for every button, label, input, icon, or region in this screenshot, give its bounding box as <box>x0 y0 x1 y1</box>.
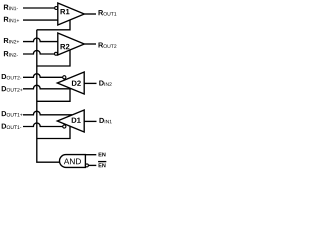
bubble AND inverted enable input <box>85 164 88 167</box>
label EN <box>99 153 106 157</box>
label DOUT1- <box>2 124 22 129</box>
wire RIN1- <box>23 7 55 9</box>
label ROUT1 <box>98 10 116 15</box>
bubble R2 inverting input <box>55 52 58 55</box>
wire DIN2 <box>84 82 96 84</box>
label ROUT2 <box>98 42 116 47</box>
overline of EN-bar label <box>98 161 106 163</box>
wire D2 enable tap <box>37 88 70 101</box>
label RIN2- <box>4 51 18 56</box>
wire ROUT2 <box>84 43 96 45</box>
bubble D2 inverting output <box>63 76 66 79</box>
wire RIN1+ <box>23 19 58 21</box>
wire R2 enable tap <box>37 50 70 66</box>
wire D1 enable tap <box>37 126 70 138</box>
label RIN1+ <box>4 17 19 22</box>
label DIN1 <box>99 118 111 123</box>
label RIN2+ <box>4 38 19 43</box>
label R1 <box>61 9 70 14</box>
wire DIN1 <box>84 120 96 122</box>
wire EN-bar input <box>88 164 96 166</box>
wire RIN2- with hop <box>23 50 55 54</box>
receiver R2 <box>58 33 85 55</box>
AND gate U1 <box>60 155 86 168</box>
label D2 <box>72 80 81 85</box>
label RIN1- <box>4 5 18 10</box>
wire DOUT2- with hop <box>23 74 63 78</box>
label DOUT2+ <box>2 86 23 91</box>
label D1 <box>72 118 81 123</box>
label DIN2 <box>99 80 111 85</box>
driver D1 <box>57 110 84 132</box>
label DOUT1+ <box>2 111 23 116</box>
wire ROUT1 <box>84 13 96 15</box>
label DOUT2- <box>2 74 22 79</box>
label EN-bar <box>99 163 106 167</box>
bubble R1 inverting input <box>55 7 58 10</box>
wire EN input <box>85 154 96 156</box>
wire enable bus <box>37 30 60 162</box>
wire DOUT2+ with hop <box>23 85 71 89</box>
wire DOUT1+ with hop <box>23 111 72 115</box>
bubble D1 inverting output <box>63 125 66 128</box>
wire RIN2+ with hop <box>23 38 58 42</box>
label R2 <box>61 44 70 49</box>
label AND <box>64 158 81 164</box>
receiver R1 <box>58 3 85 25</box>
driver D2 <box>57 72 84 94</box>
wire R1 enable tap <box>37 20 70 30</box>
wire DOUT1- with hop <box>23 123 63 127</box>
